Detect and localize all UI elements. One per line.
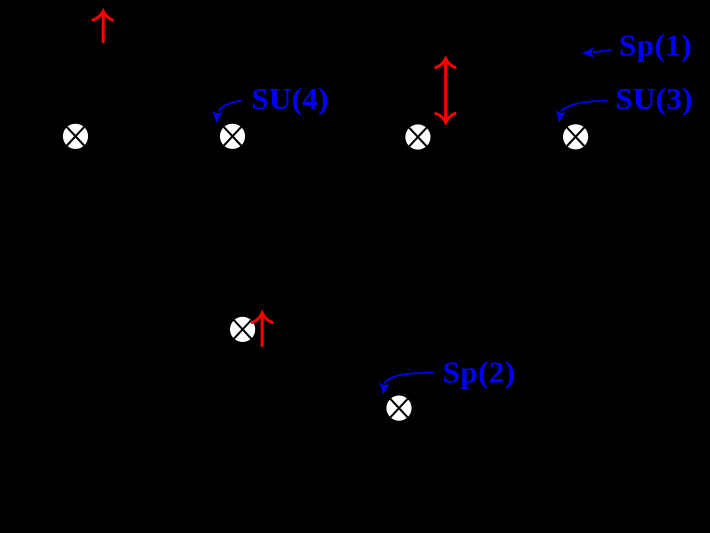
- svg-text:Sp(2): Sp(2): [443, 355, 516, 390]
- spin site node 5 (circled-times): [230, 317, 255, 342]
- blue bent arrow to node 6 (Sp(2)): [378, 373, 435, 396]
- red spin up-arrow (top-left): [93, 11, 112, 42]
- red spin up-arrow (beside node 5): [252, 313, 272, 346]
- blue bent arrow to node 4 (SU(3)): [554, 101, 608, 124]
- spin site node 4 (circled-times): [563, 124, 588, 149]
- blue bent arrow to node 2 (SU(4)): [211, 101, 241, 124]
- spin site node 3 (circled-times): [405, 124, 430, 149]
- svg-text:SU(4): SU(4): [252, 81, 329, 116]
- spin site node 6 (circled-times): [386, 396, 411, 421]
- blue arrow to Sp(1) pair: [581, 47, 611, 59]
- spin site node 1 (circled-times): [63, 124, 88, 149]
- red double-headed arrow (between node 3 and node 4): [436, 59, 455, 123]
- svg-text:Sp(1): Sp(1): [619, 27, 692, 62]
- svg-text:SU(3): SU(3): [616, 81, 693, 116]
- spin site node 2 (circled-times): [220, 124, 245, 149]
